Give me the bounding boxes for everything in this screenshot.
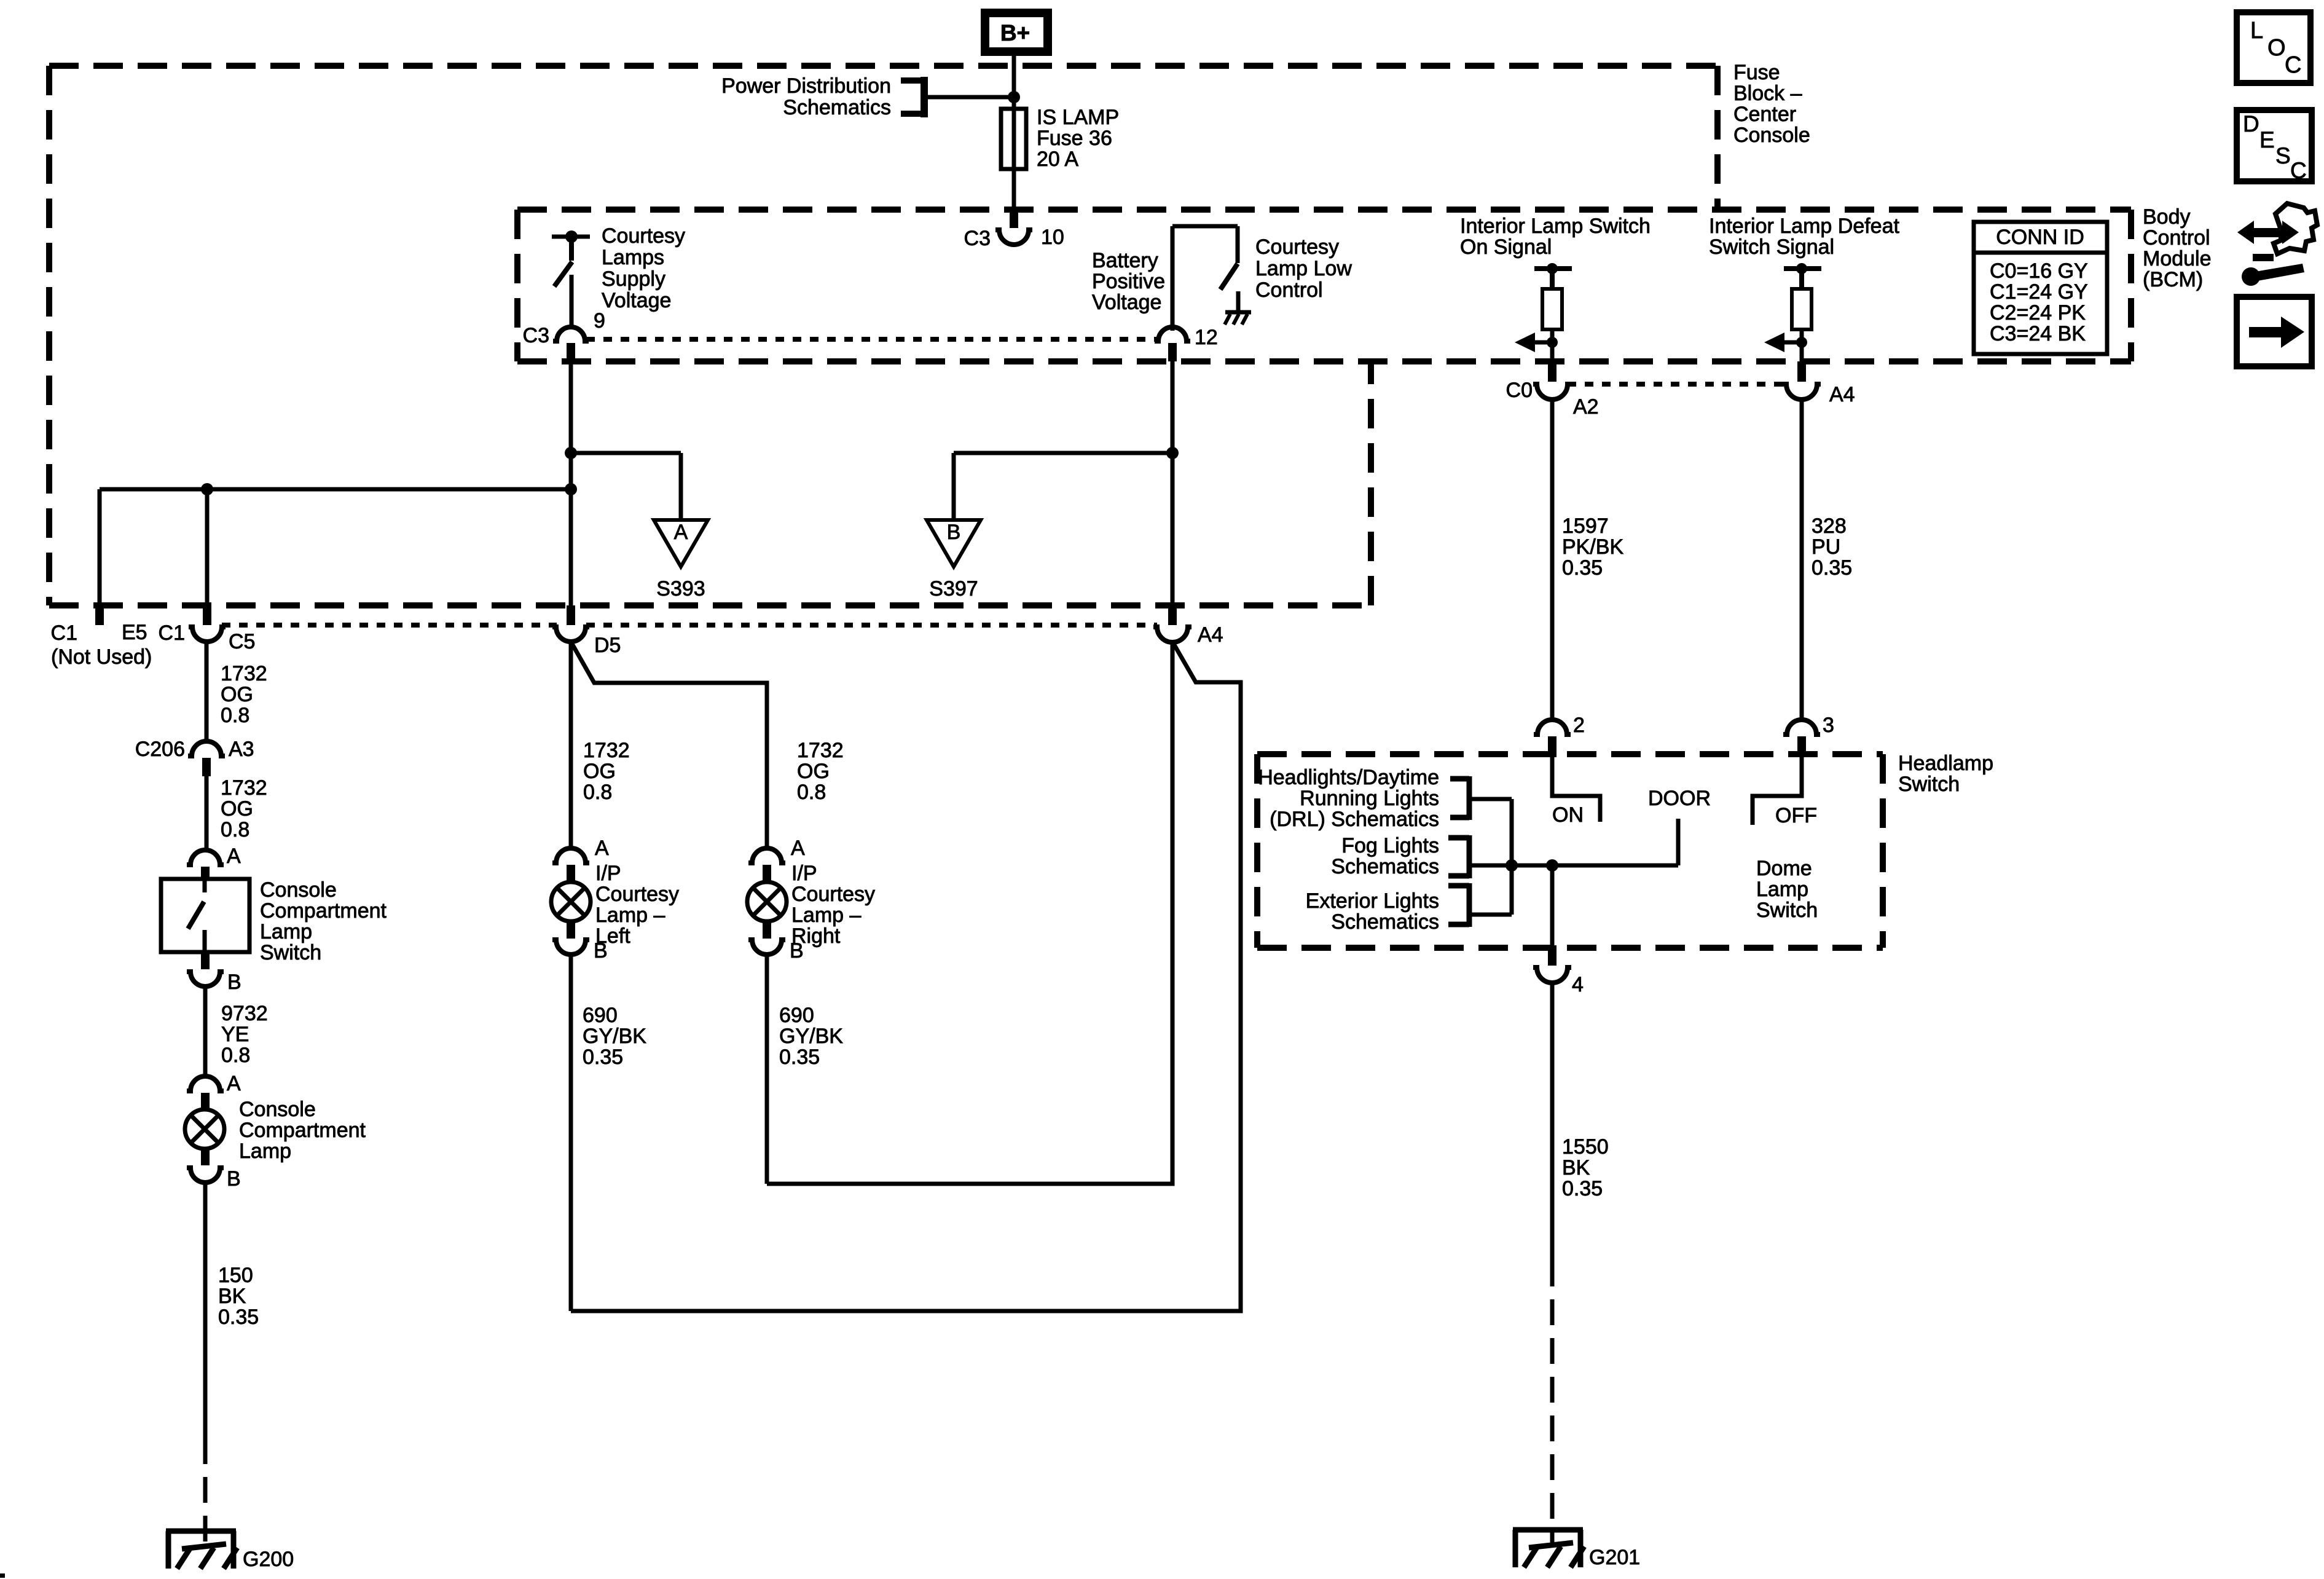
svg-text:690: 690 [583,1004,618,1027]
svg-text:Lamp –: Lamp – [791,904,861,927]
svg-text:B: B [594,939,608,963]
svg-text:Voltage: Voltage [1092,291,1161,314]
svg-text:S393: S393 [656,577,705,600]
svg-text:S397: S397 [929,577,978,600]
svg-text:Lamps: Lamps [602,246,664,269]
svg-text:Schematics: Schematics [1331,855,1439,878]
svg-text:Interior Lamp Switch: Interior Lamp Switch [1460,215,1651,238]
svg-text:Voltage: Voltage [602,289,671,312]
svg-text:A4: A4 [1198,623,1223,647]
svg-text:CONN ID: CONN ID [1996,226,2084,249]
svg-text:C3=24 BK: C3=24 BK [1990,322,2086,345]
svg-text:4: 4 [1572,973,1584,996]
svg-text:0.8: 0.8 [797,781,826,804]
svg-text:B: B [227,1167,241,1191]
svg-text:E5: E5 [122,621,147,644]
svg-text:1732: 1732 [583,739,630,762]
svg-text:C: C [2285,52,2301,78]
svg-text:I/P: I/P [791,862,817,885]
svg-text:L: L [2250,18,2263,44]
svg-text:2: 2 [1573,714,1585,737]
svg-text:YE: YE [221,1023,249,1046]
svg-text:Battery: Battery [1092,249,1158,272]
svg-text:(DRL) Schematics: (DRL) Schematics [1270,808,1439,831]
svg-text:Center: Center [1733,103,1796,126]
svg-text:OG: OG [221,683,253,706]
svg-text:Console: Console [260,878,337,902]
svg-text:Lamp: Lamp [239,1140,291,1163]
svg-text:Dome: Dome [1756,857,1812,880]
svg-text:Fuse: Fuse [1733,61,1780,84]
svg-text:C1: C1 [51,621,77,645]
svg-text:Headlamp: Headlamp [1898,752,1993,775]
svg-text:Schematics: Schematics [783,96,891,119]
svg-text:A: A [595,837,609,860]
svg-text:9732: 9732 [221,1002,268,1025]
svg-text:20 A: 20 A [1037,148,1078,171]
svg-text:BK: BK [1562,1156,1590,1179]
svg-text:1732: 1732 [221,776,267,800]
svg-text:I/P: I/P [595,862,621,885]
svg-text:328: 328 [1812,514,1847,538]
svg-text:C206: C206 [135,738,185,761]
svg-text:9: 9 [594,309,605,333]
svg-text:Switch: Switch [260,941,321,964]
svg-text:C3: C3 [523,324,549,347]
svg-text:Lamp: Lamp [1756,878,1808,901]
svg-text:Running Lights: Running Lights [1300,787,1439,810]
svg-text:C1=24 GY: C1=24 GY [1990,280,2088,304]
svg-text:0.35: 0.35 [1562,1177,1603,1200]
svg-text:Headlights/Daytime: Headlights/Daytime [1258,766,1439,789]
svg-text:A: A [674,521,688,544]
svg-text:Body: Body [2143,205,2191,229]
svg-text:B+: B+ [1000,20,1030,45]
svg-text:Console: Console [239,1098,316,1121]
svg-text:Compartment: Compartment [239,1119,366,1142]
svg-text:B: B [947,521,961,544]
svg-text:(BCM): (BCM) [2143,268,2203,291]
svg-text:A2: A2 [1573,395,1599,419]
svg-text:B: B [790,939,804,963]
svg-text:690: 690 [779,1004,814,1027]
svg-text:Courtesy: Courtesy [602,224,685,248]
svg-text:(Not Used): (Not Used) [51,645,152,669]
svg-text:0.8: 0.8 [221,704,249,727]
svg-text:IS LAMP: IS LAMP [1037,106,1119,129]
svg-text:GY/BK: GY/BK [583,1025,646,1048]
svg-text:Courtesy: Courtesy [791,883,875,906]
svg-text:DOOR: DOOR [1648,787,1711,810]
svg-text:0.35: 0.35 [1562,556,1603,580]
svg-text:Compartment: Compartment [260,899,387,923]
svg-text:3: 3 [1823,714,1834,737]
svg-text:Control: Control [1255,278,1323,302]
svg-text:Fog Lights: Fog Lights [1341,834,1439,857]
svg-text:On Signal: On Signal [1460,235,1552,259]
svg-text:D5: D5 [594,634,621,657]
svg-text:PK/BK: PK/BK [1562,535,1623,559]
svg-text:GY/BK: GY/BK [779,1025,843,1048]
svg-text:OG: OG [797,760,830,783]
svg-text:ON: ON [1552,803,1584,827]
svg-text:Exterior Lights: Exterior Lights [1306,889,1439,913]
svg-text:0.8: 0.8 [583,781,612,804]
svg-text:Switch: Switch [1898,773,1960,796]
svg-text:C0: C0 [1506,379,1533,402]
svg-text:A: A [791,837,805,860]
svg-text:1550: 1550 [1562,1135,1609,1159]
svg-text:Control: Control [2143,226,2210,250]
svg-text:D: D [2243,111,2259,136]
svg-text:BK: BK [218,1285,246,1308]
svg-text:C2=24 PK: C2=24 PK [1990,301,2086,325]
svg-text:Lamp: Lamp [260,920,312,943]
svg-text:Interior Lamp Defeat: Interior Lamp Defeat [1709,215,1899,238]
svg-text:Courtesy: Courtesy [595,883,679,906]
svg-text:B: B [227,971,241,994]
svg-text:C5: C5 [229,630,255,653]
svg-text:OG: OG [221,797,253,821]
svg-text:A: A [227,845,241,868]
svg-text:150: 150 [218,1264,253,1287]
svg-text:1732: 1732 [797,739,844,762]
svg-text:Console: Console [1733,124,1810,147]
svg-text:Courtesy: Courtesy [1255,235,1339,259]
svg-text:Lamp –: Lamp – [595,904,665,927]
svg-text:C: C [2290,158,2307,183]
svg-text:C3: C3 [964,227,991,250]
svg-text:A: A [227,1072,241,1095]
svg-text:C1: C1 [159,621,185,645]
svg-text:O: O [2267,35,2286,61]
svg-text:G200: G200 [243,1548,294,1571]
svg-text:0.35: 0.35 [779,1045,820,1069]
svg-text:PU: PU [1812,535,1840,559]
svg-text:OFF: OFF [1775,804,1817,827]
svg-text:Switch Signal: Switch Signal [1709,235,1834,259]
svg-text:1597: 1597 [1562,514,1609,538]
svg-text:0.8: 0.8 [221,818,249,841]
svg-text:0.35: 0.35 [583,1045,623,1069]
svg-text:Power Distribution: Power Distribution [721,74,891,98]
svg-text:0.35: 0.35 [218,1305,259,1329]
svg-text:Schematics: Schematics [1331,910,1439,934]
svg-text:0.35: 0.35 [1812,556,1852,580]
svg-text:Module: Module [2143,247,2212,270]
svg-text:Lamp Low: Lamp Low [1255,257,1352,280]
svg-text:C0=16 GY: C0=16 GY [1990,259,2088,283]
svg-text:10: 10 [1041,226,1064,249]
svg-text:12: 12 [1195,326,1218,349]
svg-text:OG: OG [583,760,616,783]
svg-text:Supply: Supply [602,267,665,291]
svg-text:A4: A4 [1829,383,1855,406]
svg-text:0.8: 0.8 [221,1044,250,1067]
svg-text:E: E [2259,127,2275,152]
svg-text:Positive: Positive [1092,270,1165,293]
svg-text:A3: A3 [229,738,254,761]
svg-text:Fuse 36: Fuse 36 [1037,127,1112,150]
svg-text:G201: G201 [1589,1546,1640,1569]
svg-text:S: S [2275,143,2291,168]
svg-text:Switch: Switch [1756,899,1818,922]
svg-text:Block –: Block – [1733,82,1802,105]
svg-text:1732: 1732 [221,662,267,685]
